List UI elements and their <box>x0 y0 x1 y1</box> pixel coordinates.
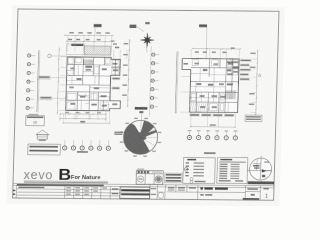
sheet number cells <box>247 188 258 190</box>
site map roads <box>250 158 272 180</box>
1F left label box A <box>38 76 51 80</box>
scale text <box>200 194 204 196</box>
max height note box <box>28 144 61 155</box>
2F level mark <box>258 74 261 77</box>
compass rose N label <box>145 22 150 24</box>
company name box <box>120 187 150 199</box>
1F left dimension line <box>57 47 59 114</box>
2F plan top leader label <box>199 24 207 26</box>
finish schedule box <box>217 157 248 183</box>
1F bottom dimension lines <box>60 113 106 115</box>
drawing-name label cells <box>151 188 156 189</box>
left seal <box>137 176 143 182</box>
site map south mark <box>262 175 265 178</box>
pie left label <box>114 132 122 133</box>
pie hour labels <box>119 118 161 157</box>
1F right dimension stack <box>111 40 115 41</box>
2F right column dark marks <box>227 61 238 63</box>
title block left marks <box>13 189 16 191</box>
pie shadow blob <box>123 121 157 154</box>
2F utility circles column <box>150 53 159 108</box>
2F bottom label row <box>189 113 234 116</box>
1F terrace label <box>71 44 83 46</box>
designer cells <box>168 187 175 188</box>
1F boundary fence line <box>37 50 39 112</box>
legend double-circle symbol <box>190 178 193 181</box>
1F left benchmark circle <box>48 54 51 57</box>
1F window ticks <box>66 57 121 111</box>
2F top dimension line <box>193 48 241 50</box>
shadow diagram leader <box>140 114 142 121</box>
1F balcony hatch <box>84 46 111 55</box>
2F balcony strip hatch <box>189 103 209 111</box>
scan grain <box>6 5 285 206</box>
1F bottom utility circle row <box>63 140 111 151</box>
1F plan outer walls <box>66 57 122 111</box>
1F bottom dimension texts <box>65 112 69 113</box>
2F bottom utility circle row <box>187 130 237 140</box>
disclaimer line 1 <box>24 181 108 183</box>
1F plan top leader label <box>94 24 102 27</box>
floor area table <box>164 173 182 183</box>
2F bottom dimension line <box>191 126 236 128</box>
approval stamp label <box>137 169 144 170</box>
drawing sheet <box>6 5 285 206</box>
2F faint extension lines <box>180 49 258 127</box>
1F room label blobs <box>85 66 92 68</box>
1F terrace outline <box>66 44 84 55</box>
site map caption bar <box>248 181 274 184</box>
shadow pie chart circle <box>123 120 158 154</box>
2F stair hatch <box>226 90 235 99</box>
sheet small cells <box>263 188 269 189</box>
1F faint extension lines <box>59 34 128 123</box>
1F right side label boxes <box>112 77 121 80</box>
2F window ticks <box>189 59 239 113</box>
floor area circle <box>184 168 188 172</box>
approval stamp box <box>136 170 163 184</box>
2F boundary fence line <box>175 51 177 113</box>
plumbing legend box <box>183 157 215 183</box>
sheet title text <box>200 187 203 190</box>
bottom-right dense text strip <box>243 198 260 200</box>
1F bottom row label <box>77 151 88 153</box>
site map arrow <box>262 169 267 172</box>
1F fixture lines <box>66 58 119 111</box>
1F interior walls <box>66 57 121 111</box>
1F top dimension text <box>69 32 74 34</box>
1F stair hatch <box>84 59 93 64</box>
north annotation <box>129 25 136 28</box>
site map blocks <box>253 165 260 167</box>
1F left label box B <box>39 96 52 100</box>
sheet frame border <box>13 9 279 200</box>
2F bottom right note box <box>245 115 262 122</box>
2F room label blobs <box>203 69 208 71</box>
personal seal <box>158 192 164 198</box>
center section line <box>149 46 151 116</box>
1F plan title label <box>135 107 148 110</box>
2F plan outer walls <box>181 58 239 112</box>
approval cells text <box>66 187 71 188</box>
legend heading <box>204 152 216 154</box>
1F top dimension lines <box>65 34 113 36</box>
disclaimer line 2 <box>17 184 104 186</box>
compass leader line <box>145 46 148 53</box>
1F door swing arcs <box>66 71 91 111</box>
logo sub rule <box>24 180 108 183</box>
order number text <box>18 187 44 189</box>
site map circle <box>249 158 272 180</box>
title block grid <box>13 183 274 200</box>
setback check box (25) <box>28 114 38 115</box>
pie spokes <box>123 120 158 154</box>
1F utility circles column <box>26 54 35 110</box>
2F fixture lines <box>189 60 239 113</box>
2F interior walls <box>189 59 239 113</box>
2F right dimension line <box>256 50 258 116</box>
2F right label column <box>239 59 252 81</box>
compass rose <box>140 33 154 47</box>
small house elevation icon <box>36 130 49 139</box>
2F leader line <box>206 27 207 69</box>
stamp header chars <box>138 171 140 173</box>
right seal <box>155 176 162 183</box>
1F right dimension column <box>128 39 130 107</box>
